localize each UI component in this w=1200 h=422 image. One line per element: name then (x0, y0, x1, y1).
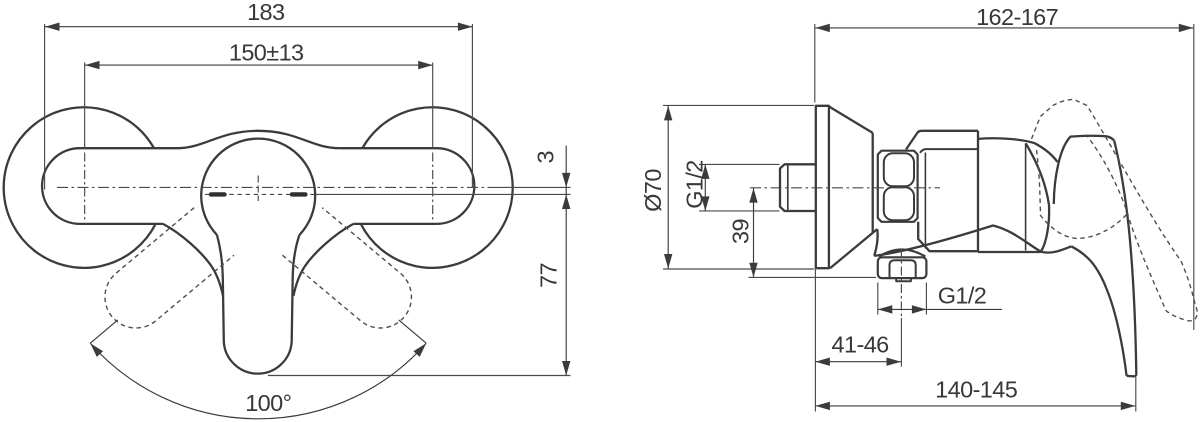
extension line 39 bottom (749, 276, 877, 278)
svg-text:183: 183 (247, 0, 285, 25)
arrow 150 right (418, 61, 433, 69)
arrow 140-145 right (1121, 402, 1136, 410)
solid reference line cartridge axis right (315, 193, 571, 195)
threaded inlet stub G1/2 (780, 164, 815, 211)
outlet axis extension (900, 318, 902, 367)
centerline left circle (84, 153, 86, 223)
outlet nut facet (890, 260, 916, 278)
svg-text:41-46: 41-46 (832, 332, 890, 358)
dashed fairing raised position (1037, 150, 1128, 239)
extension line left 183 (44, 24, 46, 190)
arrow arc right (413, 340, 429, 356)
side view pipe axis centerline (750, 187, 940, 189)
extension line G1/2 bottom (699, 210, 780, 212)
svg-text:Ø70: Ø70 (640, 169, 666, 212)
svg-text:G1/2: G1/2 (682, 160, 708, 209)
extension line outlet G1/2 right (925, 283, 927, 315)
wall escutcheon plate (816, 106, 829, 268)
dimension 150±13 (85, 64, 432, 66)
cone lower beak edge (874, 229, 877, 256)
wall reference extension line (814, 269, 816, 412)
cartridge dome circle (201, 139, 315, 235)
extension line dia70 bottom (663, 268, 814, 270)
arrow 162-167 right (1179, 24, 1194, 32)
arrow 183 right (458, 23, 473, 31)
body housing right edge (977, 131, 979, 251)
body housing step edge (920, 149, 978, 153)
sheath bump over cartridge dome (177, 131, 339, 148)
dashed handle rotated left 50deg (282, 208, 424, 341)
escutcheon circle left (4, 107, 156, 268)
svg-text:162-167: 162-167 (976, 4, 1058, 30)
extension line outlet G1/2 left (877, 283, 879, 315)
union nut facet upper (884, 153, 914, 186)
arrow 3 lower / 77 top (562, 195, 570, 210)
dimension 39 (753, 188, 755, 277)
escutcheon circle right (361, 107, 513, 268)
arrow 41-46 right (887, 358, 902, 366)
dimension outlet G1/2 with leader (878, 308, 1002, 310)
svg-text:3: 3 (533, 151, 559, 164)
svg-text:77: 77 (536, 263, 562, 288)
lever blade tip (1127, 374, 1137, 377)
arrow 39 bottom (749, 263, 757, 278)
solid reference line pipe axis right (490, 186, 571, 188)
svg-text:G1/2: G1/2 (938, 283, 987, 309)
dimension line 3 and 77 vertical (565, 146, 567, 376)
thick mark right (292, 192, 306, 196)
left shoulder curve (163, 224, 223, 296)
vertical centerline cross at dome center (257, 176, 259, 202)
cartridge section bottom edge (978, 251, 1041, 253)
extension line 162-167 right (1193, 24, 1195, 330)
union nut outline (878, 151, 918, 222)
svg-text:150±13: 150±13 (229, 39, 304, 65)
thick mark left (211, 192, 225, 196)
extension line left 150 (84, 63, 86, 150)
arrow G1/2 bottom (701, 196, 709, 211)
arrow 183 left (45, 23, 60, 31)
svg-text:140-145: 140-145 (935, 377, 1018, 403)
escutcheon cone right edge (872, 133, 874, 233)
lever blade front edge (1071, 246, 1126, 376)
outlet axis centerline (900, 249, 902, 318)
dimension 162-167 (815, 27, 1193, 29)
cartridge neck curve (1026, 144, 1049, 252)
svg-text:39: 39 (728, 219, 754, 244)
stub chamfer line (787, 164, 789, 211)
arrow dia70 bottom (664, 254, 672, 269)
union nut facet lower (884, 187, 914, 220)
angle dimension arc 100 (90, 343, 426, 419)
arrow 41-46 left (815, 358, 830, 366)
outlet nut dome cap (879, 249, 926, 256)
body housing left edge below nut (918, 222, 978, 251)
arrow 3 upper (562, 173, 570, 188)
arrow outlet G1/2 left (878, 305, 893, 313)
handle grip (front view) (217, 235, 299, 374)
extension line 162-167 left (814, 24, 816, 103)
escutcheon cone bottom edge (830, 229, 877, 268)
angle leg right (399, 320, 427, 343)
arrow 140-145 left (815, 402, 830, 410)
arrow outlet G1/2 right (912, 305, 927, 313)
arrow 39 top (749, 188, 757, 203)
cartridge section top edge (978, 138, 1058, 162)
dimension G1/2 vertical (704, 164, 706, 211)
extension line right 150 (432, 63, 434, 150)
arrow dia70 top (664, 106, 672, 121)
outlet nipple (896, 278, 911, 281)
handle tip reference line (268, 375, 571, 377)
dashed cartridge axis line (205, 193, 315, 195)
body bar (capsule) with central dome bump (42, 148, 474, 224)
under-body fairing curve (874, 226, 1071, 256)
centerline right circle (432, 153, 434, 223)
right shoulder curve (293, 224, 353, 296)
svg-text:100°: 100° (245, 390, 291, 416)
dimension dia70 (667, 106, 669, 269)
arrow 162-167 left (815, 24, 830, 32)
arrow 150 left (85, 61, 100, 69)
outlet nut body (878, 257, 927, 278)
dashed handle rotated right 50deg (92, 208, 234, 341)
horizontal centerline pipe axis (57, 186, 490, 188)
extension line 140-145 right (1135, 377, 1137, 412)
dimension 41-46 (815, 361, 901, 363)
extension line dia70 top (663, 104, 814, 106)
body housing top chamfer (906, 131, 978, 150)
escutcheon cone top edge (829, 107, 873, 133)
angle leg left (90, 320, 118, 343)
lever cap (1054, 136, 1114, 204)
body housing inner line (924, 153, 926, 249)
extension line G1/2 top (699, 163, 780, 165)
arrow 77 bottom (562, 361, 570, 376)
cartridge section divider (1025, 143, 1027, 250)
dimension 140-145 (815, 405, 1135, 407)
lever blade rear edge (1114, 141, 1136, 374)
arrow G1/2 top (701, 164, 709, 179)
dashed lever raised position (1032, 99, 1198, 321)
arrow arc left (87, 340, 103, 356)
extension line right 183 (471, 24, 473, 187)
dimension 183 (45, 26, 472, 28)
